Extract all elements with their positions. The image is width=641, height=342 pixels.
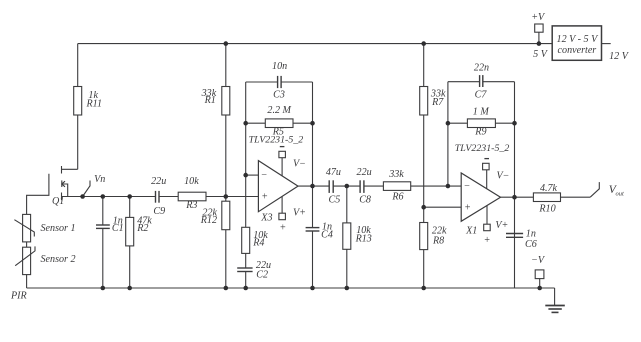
svg-text:V−: V− bbox=[497, 171, 510, 182]
svg-text:TLV2231-5_2: TLV2231-5_2 bbox=[455, 143, 510, 154]
transistor Q1 bbox=[52, 166, 78, 207]
ground bbox=[545, 288, 565, 312]
svg-text:R1: R1 bbox=[204, 95, 216, 106]
capacitor C6 bbox=[506, 228, 537, 250]
svg-text:R10: R10 bbox=[538, 204, 555, 215]
capacitor C8 bbox=[357, 167, 372, 206]
svg-text:10n: 10n bbox=[272, 61, 287, 72]
svg-text:R9: R9 bbox=[474, 127, 486, 138]
svg-text:V+: V+ bbox=[495, 220, 508, 231]
node X3 minus bbox=[243, 173, 248, 178]
resistor R4 bbox=[242, 175, 269, 268]
svg-text:C3: C3 bbox=[273, 90, 285, 101]
svg-text:4.7k: 4.7k bbox=[540, 183, 558, 194]
resistor R13 bbox=[343, 186, 372, 288]
svg-text:C2: C2 bbox=[256, 270, 268, 281]
svg-text:C5: C5 bbox=[329, 194, 341, 205]
resistor R11 bbox=[74, 44, 102, 170]
svg-text:Sensor 2: Sensor 2 bbox=[41, 254, 76, 265]
svg-text:R8: R8 bbox=[432, 235, 444, 246]
capacitor C7 bbox=[448, 63, 515, 101]
svg-text:R11: R11 bbox=[86, 98, 103, 109]
node rail C4 bbox=[310, 286, 315, 291]
node Vout bbox=[590, 182, 624, 198]
svg-text:10k: 10k bbox=[184, 176, 199, 187]
node rail R8 bbox=[421, 286, 426, 291]
node X3 output bbox=[310, 184, 315, 189]
node rail R13 bbox=[345, 286, 350, 291]
terminal +V bbox=[531, 12, 548, 60]
wire X3 feedback loop left bbox=[245, 82, 247, 175]
resistor R6 bbox=[383, 169, 410, 202]
node X1 output bbox=[512, 195, 517, 200]
svg-text:+: + bbox=[464, 203, 471, 214]
capacitor C1 bbox=[96, 197, 124, 289]
capacitor C4 bbox=[306, 186, 333, 288]
svg-text:+: + bbox=[484, 235, 491, 246]
svg-text:R7: R7 bbox=[431, 97, 444, 108]
wire main signal row bbox=[62, 196, 259, 198]
svg-text:out: out bbox=[616, 191, 625, 198]
svg-text:TLV2231-5_2: TLV2231-5_2 bbox=[249, 135, 304, 146]
terminal X3 V+ bbox=[279, 196, 306, 233]
svg-text:C9: C9 bbox=[153, 206, 165, 217]
node rail -V bbox=[537, 286, 542, 291]
svg-text:12 V: 12 V bbox=[609, 51, 630, 62]
wire X1 non-inverting input bbox=[424, 206, 462, 208]
node X3 fb R5 left bbox=[243, 121, 248, 126]
resistor R10 bbox=[533, 183, 590, 215]
svg-text:Sensor 1: Sensor 1 bbox=[41, 223, 76, 234]
wire X1 output bbox=[501, 196, 534, 198]
wire sensor to bottom rail bbox=[26, 275, 28, 288]
terminal X1 V+ bbox=[484, 205, 509, 246]
svg-text:C6: C6 bbox=[525, 239, 537, 250]
node rail R12 bbox=[224, 286, 229, 291]
svg-text:R3: R3 bbox=[185, 200, 197, 211]
node rail +V bbox=[537, 41, 542, 46]
wire X3 output row bbox=[298, 185, 461, 187]
svg-text:C8: C8 bbox=[359, 194, 371, 205]
resistor R12 bbox=[200, 197, 230, 289]
svg-text:C7: C7 bbox=[475, 89, 488, 100]
wire X3 feedback loop right bbox=[312, 82, 314, 186]
node rail C1 bbox=[101, 286, 106, 291]
svg-text:R2: R2 bbox=[136, 223, 148, 234]
capacitor C5 bbox=[326, 167, 341, 206]
terminal X3 V- bbox=[279, 147, 306, 176]
wire bottom rail bbox=[27, 287, 555, 289]
node X1 fb R9 right bbox=[512, 121, 517, 126]
svg-text:Vn: Vn bbox=[94, 174, 105, 185]
wire X1 feedback loop right bbox=[514, 82, 516, 288]
svg-text:C1: C1 bbox=[112, 223, 124, 234]
node X3 fb R5 right bbox=[310, 121, 315, 126]
op-amp X3 bbox=[249, 135, 304, 224]
sensor Sensor 1 bbox=[14, 214, 75, 242]
resistor R2 bbox=[126, 197, 153, 289]
node Vn bbox=[83, 174, 106, 197]
svg-text:5 V: 5 V bbox=[533, 49, 549, 60]
svg-text:R13: R13 bbox=[355, 233, 372, 244]
node C1 junction bbox=[101, 194, 106, 199]
wire X3 inverting input bbox=[246, 174, 259, 176]
resistor R3 bbox=[178, 176, 206, 211]
resistor R5 bbox=[246, 105, 313, 137]
capacitor C9 bbox=[151, 176, 166, 217]
node Vn junction bbox=[80, 194, 85, 199]
svg-text:2.2 M: 2.2 M bbox=[267, 105, 291, 116]
svg-text:V−: V− bbox=[293, 158, 306, 169]
svg-text:Q1: Q1 bbox=[52, 196, 64, 207]
svg-text:1 M: 1 M bbox=[473, 107, 490, 118]
resistor R9 bbox=[448, 107, 515, 138]
svg-text:V+: V+ bbox=[293, 208, 306, 219]
node rail R1 bbox=[224, 41, 229, 46]
resistor R7 bbox=[420, 44, 446, 208]
capacitor C3 bbox=[246, 61, 313, 101]
svg-text:22u: 22u bbox=[151, 176, 166, 187]
node X1 plus bbox=[421, 205, 426, 210]
terminal X1 V- bbox=[483, 159, 510, 189]
node R13 top bbox=[345, 184, 350, 189]
wire X1 feedback loop left bbox=[447, 82, 449, 186]
node X1 fb R9 left bbox=[446, 121, 451, 126]
resistor R8 bbox=[420, 207, 447, 288]
svg-text:−: − bbox=[464, 181, 471, 192]
svg-text:R12: R12 bbox=[200, 215, 217, 226]
wire sensor link bbox=[26, 242, 28, 247]
sensor Sensor 2 bbox=[15, 246, 75, 274]
svg-text:−: − bbox=[261, 170, 268, 181]
svg-text:C4: C4 bbox=[321, 230, 333, 241]
svg-text:33k: 33k bbox=[388, 169, 404, 180]
node R1 R12 junction bbox=[224, 194, 229, 199]
svg-text:converter: converter bbox=[558, 45, 597, 56]
svg-text:22n: 22n bbox=[474, 63, 489, 74]
svg-text:X3: X3 bbox=[260, 212, 272, 223]
svg-text:R6: R6 bbox=[391, 192, 403, 203]
svg-text:1n: 1n bbox=[526, 228, 536, 239]
svg-text:X1: X1 bbox=[465, 225, 477, 236]
svg-text:+V: +V bbox=[531, 12, 546, 23]
node rail R7 bbox=[421, 41, 426, 46]
node R2 junction bbox=[127, 194, 132, 199]
svg-text:+: + bbox=[261, 192, 268, 203]
node rail C2 bbox=[243, 286, 248, 291]
resistor R1 bbox=[201, 44, 230, 197]
wire gate lead bbox=[27, 174, 49, 215]
op-amp X1 bbox=[455, 143, 510, 236]
svg-text:12 V - 5 V: 12 V - 5 V bbox=[557, 34, 600, 45]
terminal -V bbox=[531, 255, 546, 288]
svg-text:R4: R4 bbox=[252, 237, 264, 248]
capacitor C2 bbox=[237, 260, 271, 288]
svg-text:22u: 22u bbox=[357, 167, 372, 178]
svg-text:47u: 47u bbox=[326, 167, 341, 178]
node X1 minus bbox=[446, 184, 451, 189]
svg-text:−V: −V bbox=[531, 255, 546, 266]
converter box 12V-5V bbox=[552, 26, 630, 62]
wire top rail bbox=[78, 43, 553, 45]
node rail R2 bbox=[127, 286, 132, 291]
svg-text:PIR: PIR bbox=[10, 291, 27, 302]
svg-text:+: + bbox=[279, 223, 286, 234]
